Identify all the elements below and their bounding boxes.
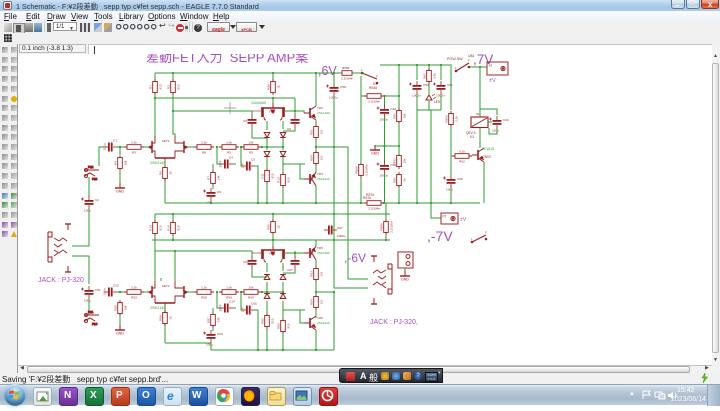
wire diode mid right B — [282, 282, 284, 295]
wire diode bot right B — [282, 301, 284, 318]
resistor R54a — [314, 150, 319, 166]
cursor crosshair — [224, 102, 236, 114]
wire R4 top stub — [119, 147, 121, 156]
wire R3 to FET1 gate — [144, 146, 148, 148]
capacitor C53 — [409, 81, 422, 94]
capacitor C65 — [242, 306, 255, 315]
svg-text:R62: R62 — [276, 323, 280, 329]
wire R53 down — [398, 188, 400, 203]
svg-text:C65: C65 — [251, 302, 257, 306]
wire x451 col — [450, 66, 452, 110]
svg-text:R13: R13 — [276, 177, 280, 183]
svg-text:2.2k: 2.2k — [131, 140, 137, 144]
wire base to TR5 — [285, 252, 304, 254]
junction R58-R59 — [216, 291, 218, 293]
svg-text:C8: C8 — [287, 127, 291, 131]
wire C66 col bottom — [283, 269, 295, 273]
junction diode right B — [282, 291, 284, 293]
wire diode bot left B — [266, 301, 268, 313]
svg-text:1N4A065: 1N4A065 — [251, 101, 266, 105]
junction out to C58 — [333, 146, 335, 148]
svg-text:5.1k: 5.1k — [459, 149, 465, 153]
svg-text:C58: C58 — [340, 85, 346, 89]
diode D3 — [264, 152, 270, 157]
wire K1 left — [355, 72, 364, 74]
wire pow bottom row — [417, 109, 441, 111]
junction brail x282 — [282, 349, 284, 351]
svg-text:33PF: 33PF — [219, 304, 223, 312]
svg-text:,6V: ,6V — [318, 64, 337, 78]
svg-text:100u: 100u — [446, 188, 453, 192]
wire R58 mid down — [385, 235, 387, 240]
capacitor C58b — [443, 175, 456, 188]
pad P$1b — [84, 310, 99, 317]
svg-text:1k: 1k — [168, 316, 172, 320]
wire diode mid right — [282, 138, 284, 150]
wire FET2 right gate — [188, 291, 196, 293]
junction R59-R60 — [240, 291, 242, 293]
svg-text:R54: R54 — [309, 155, 313, 161]
junction output node B — [315, 291, 317, 293]
wire R53c to out — [315, 282, 317, 294]
junction rail x399 — [398, 202, 400, 204]
wire R56 top ext — [360, 160, 362, 163]
resistor R51 15k — [397, 108, 402, 124]
wire feedback row B — [261, 291, 283, 293]
svg-text:R13: R13 — [148, 225, 152, 231]
wire C51 down — [88, 299, 90, 315]
ground G1 — [115, 183, 125, 188]
wire pads to C2 — [88, 177, 90, 197]
svg-text:差動FET入力 SEPP AMP案: 差動FET入力 SEPP AMP案 — [146, 54, 308, 65]
capacitor C6 — [248, 115, 257, 128]
wire FET2 source down — [164, 305, 166, 343]
wire R62 left — [451, 155, 452, 157]
resistor R54# — [364, 94, 384, 99]
diode D4 — [280, 152, 286, 157]
junction rail x431 — [430, 202, 432, 204]
out jack stub bottom — [371, 298, 377, 304]
relay K3 — [471, 117, 488, 128]
svg-text:1.0k: 1.0k — [226, 285, 232, 289]
svg-text:C58: C58 — [457, 177, 463, 181]
wire drain col right B — [174, 251, 176, 281]
junction rail x282 — [282, 202, 284, 204]
wire R60 down — [450, 127, 452, 175]
svg-text:0.5: 0.5 — [319, 300, 323, 305]
transistor TR3 2SA1015 — [304, 172, 316, 186]
svg-text:C1: C1 — [113, 139, 117, 143]
svg-text:1: 1 — [361, 68, 363, 72]
wire spk stub — [404, 268, 406, 271]
svg-text:FET1: FET1 — [162, 139, 170, 143]
junction pow x399 — [398, 64, 400, 66]
junction TR2 rail — [315, 72, 317, 74]
svg-text:C4: C4 — [229, 156, 233, 160]
junction base right B — [294, 252, 296, 254]
svg-text:C52: C52 — [113, 284, 119, 288]
junction NFB node B — [261, 291, 263, 293]
svg-text:R50: R50 — [266, 84, 270, 90]
wire R54a down — [315, 166, 317, 172]
wire TR3 emitter — [315, 169, 317, 172]
resistor R3 — [124, 145, 144, 150]
wire x417 cont — [416, 110, 418, 203]
resistor R56b — [163, 310, 168, 326]
resistor R60c — [265, 313, 270, 329]
svg-text:0.5: 0.5 — [319, 156, 323, 161]
svg-text:C14: C14 — [229, 300, 235, 304]
wire R62b down — [282, 334, 284, 350]
resistor R56# — [359, 162, 364, 178]
capacitor C51 — [81, 286, 94, 299]
svg-text:910: 910 — [176, 84, 180, 89]
resistor R61 — [427, 68, 432, 84]
wire C5 stub — [241, 147, 242, 166]
ground G2 — [115, 325, 125, 330]
wire C9 gnd row — [210, 201, 212, 203]
wire R57b down — [212, 328, 214, 331]
svg-text:R55: R55 — [113, 305, 117, 311]
wire R54 right lead — [384, 95, 399, 97]
svg-text:R8: R8 — [202, 151, 206, 155]
svg-text:R51: R51 — [392, 177, 396, 183]
wire drain bus lower — [173, 110, 252, 112]
svg-text:R56: R56 — [158, 315, 162, 321]
svg-text:C60: C60 — [503, 118, 509, 122]
svg-text:2N03: 2N03 — [483, 155, 491, 159]
svg-text:P$1: P$1 — [88, 310, 94, 314]
junction R9-R5 — [240, 146, 242, 148]
wire C54 down — [384, 118, 386, 162]
svg-text:JACK : PJ-320: JACK : PJ-320 — [38, 277, 84, 284]
wire C53 down — [416, 94, 418, 110]
wire Q5 emitter down — [483, 162, 485, 203]
svg-text:1k: 1k — [402, 178, 406, 182]
svg-text:R58#: R58# — [379, 223, 383, 231]
resistor R2 — [171, 79, 176, 95]
svg-text:C2: C2 — [95, 198, 99, 202]
wire R14 stub — [172, 214, 174, 221]
junction rail x361 — [360, 202, 362, 204]
junction R8-R9 — [216, 146, 218, 148]
wire gnd row — [375, 145, 399, 147]
junction rail x417 — [416, 202, 418, 204]
svg-text:R55#: R55# — [342, 66, 350, 70]
wire C64 col bottom — [252, 269, 267, 277]
svg-text:15k: 15k — [402, 158, 406, 163]
svg-text:TR5: TR5 — [317, 246, 323, 250]
svg-text:R51: R51 — [309, 129, 313, 135]
svg-text:R51: R51 — [392, 113, 396, 119]
capacitor C1 — [104, 143, 117, 152]
junction brail x235 — [257, 349, 259, 351]
svg-text:2SK2145: 2SK2145 — [150, 306, 166, 310]
svg-text:2: 2 — [485, 230, 487, 234]
junction output node top — [315, 146, 317, 148]
wire R7 stub — [212, 164, 214, 170]
svg-text:1000u: 1000u — [380, 118, 389, 122]
wire K1 down — [361, 76, 365, 96]
svg-text:TR4: TR4 — [269, 252, 275, 256]
ground G out — [400, 271, 410, 276]
transistor TR5 2SC1403 — [304, 246, 316, 260]
wire out node B right — [316, 291, 334, 293]
fet pair FET2 — [148, 281, 188, 305]
svg-text:910: 910 — [286, 177, 290, 182]
svg-text:POW-SW: POW-SW — [447, 57, 463, 61]
svg-text:14k: 14k — [216, 317, 220, 322]
input jack J1 — [48, 232, 67, 262]
junction R54-x399 — [398, 95, 400, 97]
transistor Q5 2SC1815 — [472, 148, 484, 162]
wire mirror right leg — [282, 121, 284, 129]
wire C4 right — [233, 163, 236, 165]
wire relay to C60 — [488, 121, 492, 123]
svg-text:,-7V: ,-7V — [427, 228, 453, 244]
svg-text:R58: R58 — [201, 296, 207, 300]
svg-text:1M: 1M — [123, 305, 127, 310]
resistor R53c — [314, 266, 319, 282]
svg-text:220u: 220u — [492, 129, 499, 133]
capacitor C61 — [433, 81, 446, 94]
svg-text:2.2k: 2.2k — [131, 285, 137, 289]
wire C1 left lead — [99, 147, 104, 166]
resistor R55b — [118, 300, 123, 316]
LED D9 — [426, 94, 436, 100]
start orb — [4, 384, 26, 406]
resistor R57# — [364, 201, 384, 206]
svg-text:PJ: PJ — [443, 215, 447, 219]
resistor R53 1k — [397, 172, 402, 188]
svg-text:1k: 1k — [168, 171, 172, 175]
svg-text:P$3: P$3 — [92, 177, 98, 181]
wire R61 top — [428, 65, 430, 68]
svg-text:TR2: TR2 — [317, 106, 323, 110]
diode D5 — [264, 275, 270, 280]
junction diode left — [266, 146, 268, 148]
svg-text:C53: C53 — [217, 332, 223, 336]
resistor R50b — [271, 219, 276, 235]
wire C5 down — [255, 166, 258, 203]
wire R50a stub — [272, 73, 274, 80]
capacitor C66 — [291, 256, 300, 269]
junction tail B — [272, 239, 274, 241]
wire R7 to C9 — [212, 186, 214, 189]
wire mirror left leg — [266, 121, 268, 130]
junction pow x429 — [428, 64, 430, 66]
capacitor C64 — [248, 256, 257, 269]
capacitor C2 — [81, 196, 94, 209]
wire mirror tail — [272, 98, 274, 103]
wire x431 from row — [430, 110, 432, 203]
capacitor C58 1000u — [326, 83, 339, 96]
resistor R57b — [211, 312, 216, 328]
svg-text:C67: C67 — [337, 226, 343, 230]
pnp mirror pair Q1 Q2 — [252, 103, 295, 120]
wire C53b down — [210, 343, 212, 350]
wire mirror right leg B — [282, 263, 284, 271]
junction tail — [272, 97, 274, 99]
connector speaker GND — [398, 252, 413, 268]
diode D2 — [280, 133, 286, 138]
wire C55 down — [384, 174, 386, 203]
junction base right — [294, 110, 296, 112]
capacitor C54 — [377, 105, 390, 118]
svg-text:15k: 15k — [402, 113, 406, 118]
junction R54-C54 — [383, 95, 385, 97]
wire R50b stub — [272, 214, 274, 220]
capacitor C67 big — [324, 226, 337, 235]
svg-text:2: 2 — [468, 58, 470, 62]
wire TR3 base — [300, 164, 304, 179]
wire R1 stub — [154, 73, 156, 80]
wire R50b bot — [272, 234, 274, 243]
svg-text:1000u: 1000u — [436, 94, 445, 98]
wire C64 col top — [251, 253, 253, 257]
resistor R52 15k — [397, 153, 402, 169]
junction rail R2 — [172, 72, 174, 74]
wire R13b down — [282, 188, 284, 203]
diode D1 — [264, 133, 270, 138]
capacitor C14 — [220, 304, 233, 313]
wire R2 down — [173, 95, 175, 136]
junction diode left B — [266, 291, 268, 293]
wire top rail right — [380, 64, 452, 66]
wire mid rail V- top channel — [165, 202, 480, 204]
svg-text:R51: R51 — [392, 158, 396, 164]
wire diode bottom right — [282, 157, 284, 172]
svg-text:#C1815: #C1815 — [482, 147, 494, 151]
capacitor C52 — [104, 288, 117, 297]
svg-text:910: 910 — [270, 318, 274, 323]
svg-text:1000u: 1000u — [337, 234, 346, 238]
resistor R4 — [118, 155, 123, 171]
jack stub top — [65, 224, 71, 230]
tray — [629, 391, 635, 397]
wire out row — [283, 163, 305, 165]
wire R13 stub — [154, 214, 156, 221]
svg-text:FET2: FET2 — [162, 284, 170, 288]
resistor R59b — [219, 290, 239, 295]
wire C14 right — [233, 307, 236, 309]
svg-text:1000u: 1000u — [380, 174, 389, 178]
junction rail x215 — [210, 202, 212, 204]
svg-text:15: 15 — [276, 225, 280, 229]
svg-text:GND: GND — [401, 278, 409, 282]
capacitor C53b — [203, 330, 216, 343]
junction rail4 x175 — [174, 250, 176, 252]
svg-text:2.2/1W#: 2.2/1W# — [389, 221, 393, 233]
connector +V supply — [487, 62, 508, 75]
diode D8 — [280, 294, 286, 299]
wire V+ rail top channel — [155, 72, 362, 74]
svg-text:R11: R11 — [260, 173, 264, 179]
wire R1 to drain bus — [154, 95, 156, 138]
svg-text:2: 2 — [376, 74, 378, 78]
svg-text:2SA1015: 2SA1015 — [317, 177, 330, 181]
svg-text:15: 15 — [276, 85, 280, 89]
wire x399 through — [398, 65, 400, 110]
ground G power — [370, 145, 380, 150]
resistor R55# — [342, 71, 352, 76]
svg-text:R61: R61 — [422, 73, 426, 79]
junction rail x235 — [257, 202, 259, 204]
wire mirror left leg B — [266, 263, 268, 272]
wire R54b down — [315, 310, 317, 316]
svg-text:910: 910 — [158, 225, 162, 230]
wire FET1 source down — [164, 160, 166, 203]
wire x334 to jack out — [334, 287, 368, 289]
resistor R11 — [265, 168, 270, 184]
junction input node — [119, 146, 121, 148]
wire C8 col bottom — [283, 128, 295, 131]
wire C2 to jack tip — [72, 209, 89, 246]
wire jack ring row — [72, 256, 89, 284]
svg-text:R57: R57 — [206, 317, 210, 323]
svg-text:JACK : PJ-320,: JACK : PJ-320, — [370, 319, 418, 326]
svg-text:C61: C61 — [447, 83, 453, 87]
capacitor C9 — [203, 188, 216, 201]
svg-text:114: 114 — [241, 163, 245, 168]
pad P$4b — [84, 318, 98, 326]
npn mirror pair B — [252, 245, 295, 262]
svg-text:R5: R5 — [249, 151, 253, 155]
svg-text:R53: R53 — [309, 271, 313, 277]
wire out node to right — [316, 146, 348, 148]
resistor R51a — [314, 124, 319, 140]
transistor TR2 2SC1400 — [304, 106, 316, 120]
wire relay down to Q — [479, 128, 481, 148]
junction drain bus left — [154, 97, 156, 99]
wire x295 drop — [294, 98, 296, 116]
wire TR2 collector up — [315, 73, 317, 106]
wire TR6 collector down — [315, 330, 317, 350]
fet pair FET1 — [148, 136, 188, 160]
svg-text:100u: 100u — [84, 299, 91, 303]
svg-text:2SC1403: 2SC1403 — [317, 251, 330, 255]
resistor R50a — [271, 79, 276, 95]
svg-text:1.0k: 1.0k — [226, 140, 232, 144]
wire R4 to gnd — [119, 171, 121, 184]
wire diode mid left B — [266, 282, 268, 295]
svg-text:0.5: 0.5 — [319, 130, 323, 135]
junction gnd row a — [383, 145, 385, 147]
junction drain bus right — [172, 110, 174, 112]
wire R2 stub — [172, 73, 174, 80]
pad P$2 — [84, 165, 99, 172]
svg-text:TR6: TR6 — [317, 316, 323, 320]
junction pow x441 — [440, 64, 442, 66]
svg-text:C67: C67 — [287, 268, 293, 272]
svg-text:C5: C5 — [251, 158, 255, 162]
wire relay right loop — [480, 109, 497, 115]
wire C58 down long — [333, 96, 335, 288]
svg-text:R54#: R54# — [369, 86, 377, 90]
wire C61 top — [440, 65, 442, 80]
junction supply node — [479, 66, 481, 68]
svg-text:2.2k: 2.2k — [201, 140, 207, 144]
wire TR6 emitter — [315, 316, 317, 318]
wire C6 col top — [251, 111, 253, 116]
svg-text:R7: R7 — [206, 176, 210, 180]
svg-text:LED: LED — [434, 100, 441, 104]
svg-text:100u: 100u — [103, 288, 107, 295]
svg-text:±V: ±V — [460, 217, 467, 223]
svg-text:R14: R14 — [166, 225, 170, 231]
wire x386 up — [385, 203, 387, 219]
junction pow x417 — [416, 64, 418, 66]
